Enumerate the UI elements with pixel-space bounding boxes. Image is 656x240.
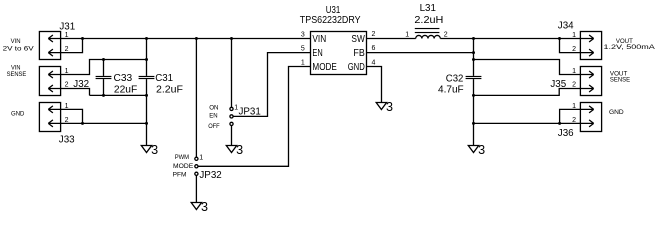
svg-text:C32: C32 <box>446 73 464 84</box>
wire vout-sense to J35 pin1 <box>474 60 581 75</box>
svg-text:2V to 6V: 2V to 6V <box>3 45 35 52</box>
svg-text:FB: FB <box>353 48 365 59</box>
svg-text:6: 6 <box>372 45 376 52</box>
junction sub-rail / C33 <box>102 58 105 61</box>
jumper JP32 pin 3 <box>195 172 198 175</box>
junction output vertical / J35 pin2 <box>472 94 475 97</box>
svg-text:1.2V, 500mA: 1.2V, 500mA <box>604 44 656 51</box>
svg-text:3: 3 <box>301 31 305 38</box>
junction GND sub-rail / C31 <box>145 94 148 97</box>
capacitor C32 <box>466 76 482 77</box>
svg-text:J35: J35 <box>550 79 566 90</box>
junction GND vertical / J33 <box>145 122 148 125</box>
svg-text:3: 3 <box>386 100 393 114</box>
svg-text:1: 1 <box>405 32 409 39</box>
connector J31 pin 1 arrow <box>48 35 60 42</box>
wire U31 GND pin to ground <box>367 67 382 103</box>
junction GND sub-rail / C33 <box>102 94 105 97</box>
svg-text:2: 2 <box>572 117 576 124</box>
svg-text:SENSE: SENSE <box>7 71 27 78</box>
connector J35 pin 2 arrow <box>580 85 593 92</box>
svg-text:2.2uH: 2.2uH <box>414 15 443 26</box>
wire J32 pin1 to vin-sense sub-rail <box>61 60 147 75</box>
svg-text:PFM: PFM <box>173 172 187 179</box>
svg-text:J31: J31 <box>59 22 75 33</box>
junction VIN rail / JP31 <box>230 37 233 40</box>
capacitor C33 <box>103 60 105 76</box>
connector J33 <box>39 103 60 132</box>
connector J34 pin 2 arrow <box>580 49 593 56</box>
wire VIN rail to JP32 pin1 <box>195 39 197 158</box>
connector J33 pin 1 arrow <box>48 106 60 113</box>
wire J33 pin1 join <box>61 109 83 123</box>
connector J36 pin 2 arrow <box>580 120 593 127</box>
svg-text:TPS62232DRY: TPS62232DRY <box>300 15 361 26</box>
svg-text:SW: SW <box>351 34 365 45</box>
svg-text:1: 1 <box>301 59 305 66</box>
IC U31 box <box>311 32 367 75</box>
junction J33 pin1/pin2 <box>81 122 84 125</box>
junction J31 pin2 / VIN rail <box>81 37 84 40</box>
wire JP31 pin2 to U31 EN <box>233 53 310 117</box>
svg-text:GND: GND <box>609 109 624 116</box>
wire J33 pin2 to GND vertical <box>61 122 147 124</box>
svg-text:3: 3 <box>236 143 243 157</box>
svg-text:2.2uF: 2.2uF <box>156 85 183 96</box>
svg-text:1: 1 <box>234 104 238 111</box>
svg-text:4.7uF: 4.7uF <box>438 84 464 95</box>
wire left GND sub-rail <box>90 94 147 96</box>
svg-text:JP32: JP32 <box>199 170 221 181</box>
svg-text:2: 2 <box>444 32 448 39</box>
svg-text:3: 3 <box>201 200 208 214</box>
svg-text:SENSE: SENSE <box>610 76 631 83</box>
svg-text:2: 2 <box>572 82 576 89</box>
junction VIN rail / C31 <box>145 37 148 40</box>
svg-text:EN: EN <box>312 48 322 59</box>
junction sub-rail / C31 <box>145 58 148 61</box>
connector J31 pin 2 arrow <box>48 49 60 56</box>
ground symbol left <box>141 146 151 153</box>
junction J36 pin1/pin2 <box>558 122 561 125</box>
svg-text:J36: J36 <box>558 128 574 139</box>
svg-text:1: 1 <box>572 68 576 75</box>
svg-text:ON: ON <box>209 105 218 112</box>
jumper JP32 pin 1 <box>195 157 198 160</box>
svg-text:5: 5 <box>301 45 305 52</box>
wire right GND rail to J36 <box>474 122 581 124</box>
wire VIN rail <box>61 38 311 40</box>
svg-text:EN: EN <box>209 112 217 119</box>
svg-text:VIN: VIN <box>312 34 326 45</box>
connector J36 pin 1 arrow <box>580 106 593 113</box>
wire J36 pin1 join <box>560 109 581 123</box>
wire J35 pin2 to gnd <box>474 89 581 96</box>
svg-text:22uF: 22uF <box>114 85 137 96</box>
svg-text:GND: GND <box>11 110 24 117</box>
wire VIN rail to JP31 pin1 <box>231 39 233 108</box>
svg-text:3: 3 <box>151 143 158 157</box>
junction VIN rail / JP32 <box>195 37 198 40</box>
svg-text:OFF: OFF <box>208 123 220 130</box>
wire J34 pin2 from VOUT rail <box>560 39 581 53</box>
jumper JP31 pin 2 <box>230 115 233 118</box>
inductor L31 <box>416 35 441 38</box>
svg-text:C31: C31 <box>155 73 173 84</box>
connector J33 pin 2 arrow <box>48 120 60 127</box>
junction VOUT rail / J34 pin2 <box>558 37 561 40</box>
connector J36 <box>580 103 601 132</box>
connector J34 <box>580 32 601 60</box>
wire GND vertical down to ground <box>146 95 148 145</box>
svg-text:2: 2 <box>572 46 576 53</box>
junction output vertical / right GND rail <box>472 122 475 125</box>
ground symbol output <box>468 146 478 153</box>
wire JP31 pin3 to ground <box>231 126 233 146</box>
svg-text:MODE: MODE <box>173 163 194 170</box>
svg-text:1: 1 <box>199 154 203 161</box>
wire output vertical <box>473 39 475 146</box>
wire FB to output node <box>367 52 474 54</box>
connector J35 <box>580 67 601 96</box>
svg-text:2: 2 <box>65 82 69 89</box>
connector J34 pin 1 arrow <box>580 35 593 42</box>
junction output vertical / sense line <box>472 58 475 61</box>
svg-text:VIN: VIN <box>11 38 21 45</box>
svg-text:2: 2 <box>372 31 376 38</box>
svg-text:1: 1 <box>572 32 576 39</box>
svg-text:1: 1 <box>572 103 576 110</box>
ground symbol U31 <box>376 103 386 110</box>
svg-text:J34: J34 <box>558 21 574 32</box>
svg-text:PWM: PWM <box>175 154 190 161</box>
svg-text:GND: GND <box>348 62 365 73</box>
connector J31 <box>39 32 60 60</box>
jumper JP31 pin 3 <box>230 122 233 125</box>
wire JP32 pin3 to ground <box>195 175 197 202</box>
wire J31 pin2 up to VIN rail <box>61 39 83 53</box>
connector J32 <box>39 67 60 96</box>
wire SW to L31 <box>367 38 416 40</box>
svg-text:L31: L31 <box>420 3 436 14</box>
svg-text:J33: J33 <box>59 135 75 146</box>
connector J35 pin 1 arrow <box>580 71 593 78</box>
jumper JP32 pin 2 <box>195 165 198 168</box>
connector J32 pin 1 arrow <box>48 71 60 78</box>
wire J32 pin2 down to GND sub-rail <box>61 89 90 96</box>
capacitor C31 <box>146 39 148 76</box>
junction FB / output node <box>472 51 475 54</box>
svg-text:3: 3 <box>478 143 485 157</box>
svg-text:4: 4 <box>372 59 376 66</box>
junction VOUT rail / output node <box>472 37 475 40</box>
connector J32 pin 2 arrow <box>48 85 60 92</box>
jumper JP31 pin 1 <box>230 107 233 110</box>
wire L31 to J34 VOUT rail <box>440 38 580 40</box>
svg-text:C33: C33 <box>114 73 133 84</box>
ground symbol JP31 <box>226 146 236 153</box>
wire JP32 pin2 to U31 MODE <box>198 67 311 167</box>
svg-text:MODE: MODE <box>312 62 337 73</box>
ground symbol JP32 <box>191 203 201 210</box>
